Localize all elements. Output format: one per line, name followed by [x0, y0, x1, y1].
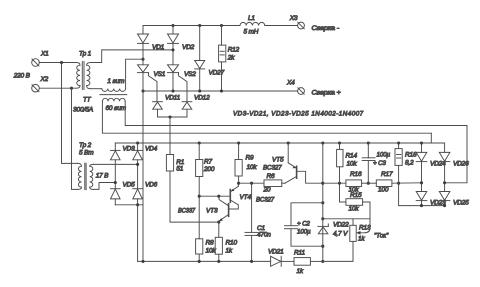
- svg-text:L1: L1: [248, 15, 255, 22]
- control supply rail wire: [115, 142, 444, 144]
- diode VD27: [195, 26, 225, 77]
- svg-text:10k: 10k: [247, 164, 258, 171]
- wire X1 to Tp1 primary top: [39, 62, 76, 64]
- svg-text:R18: R18: [405, 152, 417, 159]
- svg-text:BC327: BC327: [256, 197, 275, 204]
- svg-text:VD2: VD2: [182, 44, 195, 51]
- resistor R7: [196, 143, 215, 177]
- svg-text:470n: 470n: [257, 232, 271, 239]
- potentiometer R13: [323, 219, 371, 262]
- svg-text:Сварка +: Сварка +: [312, 90, 341, 97]
- svg-text:1 вит: 1 вит: [107, 78, 125, 85]
- svg-text:5 Вт: 5 Вт: [79, 150, 94, 157]
- svg-text:R8: R8: [206, 240, 215, 247]
- node C3 bottom: [367, 182, 370, 185]
- wire VD2 to VS2: [172, 43, 174, 64]
- top bus wire: [143, 25, 240, 27]
- svg-text:VD5: VD5: [123, 182, 136, 189]
- svg-text:VD6: VD6: [145, 182, 158, 189]
- wire Tp1 secondary top to VD2/VS2 anode node: [91, 50, 173, 63]
- diode VD6: [133, 182, 158, 199]
- transistor VT3: [178, 196, 229, 221]
- resistor R12: [219, 26, 240, 92]
- wire TT secondary right lead to rail A: [125, 101, 467, 125]
- node VD2 top: [171, 24, 174, 27]
- node R9/VT4 emitter: [237, 182, 240, 185]
- node VD2 anode junction: [171, 48, 174, 51]
- transistor VT5: [263, 143, 323, 183]
- svg-text:Тр 2: Тр 2: [79, 142, 92, 149]
- wire VD11/VD12 cathode join: [157, 109, 159, 117]
- terminal X3: [289, 15, 305, 29]
- node R18 bottom: [397, 182, 400, 185]
- svg-text:R15: R15: [350, 192, 362, 199]
- wire R1 down to VT3 emitter node: [170, 171, 219, 222]
- svg-text:8,2: 8,2: [405, 160, 414, 167]
- svg-text:1k: 1k: [358, 236, 365, 243]
- svg-text:X3: X3: [289, 15, 298, 22]
- svg-text:10k: 10k: [349, 206, 360, 213]
- plus output rail wire: [143, 90, 298, 92]
- wire Tp2 secondary top to bridge: [94, 163, 138, 165]
- svg-text:VD3: VD3: [123, 146, 136, 153]
- svg-text:10k: 10k: [347, 161, 358, 168]
- svg-text:R9: R9: [246, 155, 255, 162]
- node diode bottom row left: [420, 204, 423, 207]
- svg-text:100: 100: [378, 186, 389, 193]
- svg-text:Сварка -: Сварка -: [312, 25, 341, 32]
- wire VD3 to VD5: [114, 160, 116, 189]
- wire VD1 to VS1: [142, 43, 144, 64]
- node at X1 line: [60, 61, 63, 64]
- wire R9 to R6 row: [238, 176, 240, 183]
- svg-text:X2: X2: [40, 76, 49, 83]
- node VT3 emitter: [217, 221, 220, 224]
- thyristor VS1: [138, 65, 166, 78]
- thyristor VS2: [168, 65, 197, 78]
- node bridge right AC: [136, 163, 139, 166]
- svg-text:VD21: VD21: [268, 249, 284, 256]
- svg-text:VD22: VD22: [333, 222, 349, 229]
- wire L1 to X3: [265, 25, 298, 27]
- transistor VT4: [229, 183, 275, 209]
- svg-text:100µ: 100µ: [297, 229, 311, 236]
- diode VD24: [416, 143, 446, 167]
- ground rail wire: [138, 260, 271, 262]
- node VD26/VD25 mid: [443, 181, 446, 184]
- node VD27 top: [198, 24, 201, 27]
- wire VD21 to R11: [281, 260, 294, 262]
- resistor R11: [294, 250, 310, 275]
- wire VS2 gate to VD12: [179, 73, 188, 102]
- resistor R1: [166, 117, 184, 172]
- resistor R17: [376, 171, 393, 193]
- wire bridge minus down to ground rail: [137, 205, 139, 262]
- diode VD1: [138, 26, 165, 52]
- current transformer TT: [73, 78, 127, 114]
- wire rail B join down to control rail: [430, 133, 432, 143]
- wire VD25 to bottom: [444, 201, 446, 206]
- wire R6 row: [239, 182, 264, 184]
- svg-text:R14: R14: [346, 153, 358, 160]
- node VT5 base row: [321, 182, 324, 185]
- wire TT secondary left lead to rail B: [102, 101, 431, 133]
- capacitor C1: [245, 183, 271, 261]
- svg-text:BC327: BC327: [263, 165, 282, 172]
- resistor R8: [196, 239, 217, 262]
- node diode bottom row right: [443, 204, 446, 207]
- wire R18 node down to diode bottoms: [399, 183, 445, 205]
- transformer Tp2: [78, 142, 110, 190]
- svg-text:VT3: VT3: [206, 208, 218, 215]
- node R12 top: [220, 24, 223, 27]
- wire VD4 to VD6: [137, 160, 139, 189]
- svg-text:VD25: VD25: [453, 200, 469, 207]
- wire VD24 to VD23: [421, 162, 423, 192]
- wire R17 to R18 node: [392, 182, 422, 184]
- node VD11/VD12 junction: [168, 115, 171, 118]
- resistor R6: [263, 173, 282, 194]
- svg-text:1k: 1k: [226, 248, 233, 255]
- diode VD2: [168, 26, 195, 52]
- wire X2 to Tp1 primary bottom: [39, 87, 76, 89]
- diode VD11: [153, 94, 181, 109]
- svg-text:Тр 1: Тр 1: [79, 51, 92, 58]
- terminal X1: [32, 51, 49, 67]
- terminal X2: [32, 76, 49, 92]
- wire Tp2 secondary bottom to bridge: [94, 183, 116, 190]
- node ground rail right: [321, 260, 324, 263]
- diode VD21: [268, 249, 284, 267]
- svg-text:VT4: VT4: [240, 194, 252, 201]
- wire rail A down right side: [445, 126, 467, 183]
- svg-text:17 В: 17 В: [96, 172, 109, 179]
- wire R16 to C3 node: [362, 182, 377, 184]
- wire R11 to VD22 column: [310, 260, 322, 262]
- svg-text:220 В: 220 В: [13, 73, 31, 80]
- wire VD27 to plus rail: [199, 69, 201, 91]
- wire X1 node down to Tp2 primary top: [62, 63, 78, 164]
- svg-text:R12: R12: [228, 47, 240, 54]
- resistor R14: [337, 143, 358, 183]
- node R14 bottom: [338, 182, 341, 185]
- wire VS2 cathode to plus rail: [172, 73, 174, 91]
- node C2 top row: [321, 201, 324, 204]
- svg-text:VS2: VS2: [184, 71, 196, 78]
- svg-text:5 mH: 5 mH: [244, 29, 259, 36]
- resistor R9: [235, 143, 257, 176]
- node bridge minus: [136, 203, 139, 206]
- svg-text:R10: R10: [226, 240, 238, 247]
- wire R7 down through base node to R8: [198, 177, 200, 239]
- wire VS1 gate to VD11: [149, 73, 158, 102]
- svg-text:"Ток": "Ток": [374, 233, 389, 240]
- diode VD5: [111, 182, 136, 199]
- svg-text:R6: R6: [267, 173, 276, 180]
- svg-text:1k: 1k: [297, 268, 304, 275]
- node VS1 anode: [141, 58, 144, 61]
- svg-text:X4: X4: [286, 80, 295, 87]
- node at X2 line: [70, 87, 73, 90]
- resistor R10: [215, 222, 237, 261]
- svg-text:VD26: VD26: [453, 160, 469, 167]
- svg-text:VD4: VD4: [145, 146, 158, 153]
- wire plus rail down to ground rail: [142, 91, 144, 261]
- svg-text:VD27: VD27: [209, 69, 225, 76]
- wire VD5 to bridge bottom: [114, 199, 116, 205]
- svg-text:300/5А: 300/5А: [73, 107, 93, 114]
- svg-text:X1: X1: [40, 51, 49, 58]
- svg-text:VS1: VS1: [154, 71, 166, 78]
- zener diode VD22: [318, 222, 349, 238]
- svg-text:R16: R16: [350, 171, 362, 178]
- svg-text:BC337: BC337: [178, 208, 195, 215]
- diode VD26: [439, 143, 469, 167]
- wire VD6 to bridge bottom: [137, 199, 139, 205]
- wire Tp1 secondary bottom to TT primary: [91, 88, 102, 90]
- wire VD26 to VD25: [444, 162, 446, 192]
- capacitor C3: [362, 143, 390, 183]
- svg-text:R13: R13: [359, 225, 371, 232]
- svg-text:200: 200: [203, 166, 215, 173]
- diode VD23: [416, 192, 446, 207]
- inductor L1: [240, 15, 265, 36]
- svg-text:R11: R11: [294, 250, 305, 257]
- svg-text:+ C3: + C3: [373, 160, 386, 167]
- wire R6 to VT5 collector: [282, 182, 285, 184]
- node bridge left AC: [114, 181, 117, 184]
- wire X2 node down to Tp2 primary bottom: [72, 88, 78, 189]
- svg-text:VD1: VD1: [152, 44, 165, 51]
- diode VD25: [439, 192, 469, 207]
- diode VD4: [133, 143, 158, 160]
- node C1 top: [250, 182, 253, 185]
- capacitor C2: [285, 203, 323, 246]
- svg-text:+ C2: + C2: [297, 221, 310, 228]
- svg-text:51: 51: [176, 165, 183, 172]
- long vertical supply-to-ground wire: [322, 143, 324, 261]
- svg-text:VD3-VD21, VD23-VD25 1N4002-1N4: VD3-VD21, VD23-VD25 1N4002-1N4007: [233, 111, 364, 118]
- resistor R18: [395, 143, 417, 183]
- node R7/VT4 base: [198, 195, 201, 198]
- svg-text:100µ: 100µ: [377, 152, 391, 159]
- wire VS1 cathode to plus rail: [142, 73, 144, 91]
- R row wire: [323, 182, 346, 184]
- svg-text:VT5: VT5: [272, 157, 284, 164]
- node R13 row: [321, 217, 324, 220]
- node VD24/VD23 mid: [420, 181, 423, 184]
- svg-text:60 вит: 60 вит: [106, 105, 127, 112]
- diode VD3: [111, 143, 136, 160]
- resistor R16: [346, 171, 362, 194]
- resistor R15: [340, 183, 371, 228]
- diode VD12: [182, 94, 210, 109]
- svg-text:R7: R7: [204, 159, 213, 166]
- node C2 bottom row: [321, 245, 324, 248]
- bridge bottom wire: [115, 204, 143, 206]
- svg-text:ТТ: ТТ: [83, 97, 92, 104]
- svg-text:VD11: VD11: [165, 94, 181, 101]
- svg-text:4,7 V: 4,7 V: [333, 231, 348, 238]
- svg-text:2k: 2k: [227, 55, 235, 62]
- wire VD23 to bottom: [421, 201, 423, 206]
- node VT3 collector: [217, 195, 220, 198]
- svg-text:20: 20: [263, 187, 271, 194]
- svg-text:R17: R17: [381, 171, 393, 178]
- terminal X4: [286, 80, 304, 95]
- svg-text:VD12: VD12: [194, 94, 210, 101]
- transformer Tp1: [77, 51, 92, 90]
- wire TT primary right up to VS1 anode node: [126, 59, 143, 88]
- wire VT4 base: [199, 195, 230, 197]
